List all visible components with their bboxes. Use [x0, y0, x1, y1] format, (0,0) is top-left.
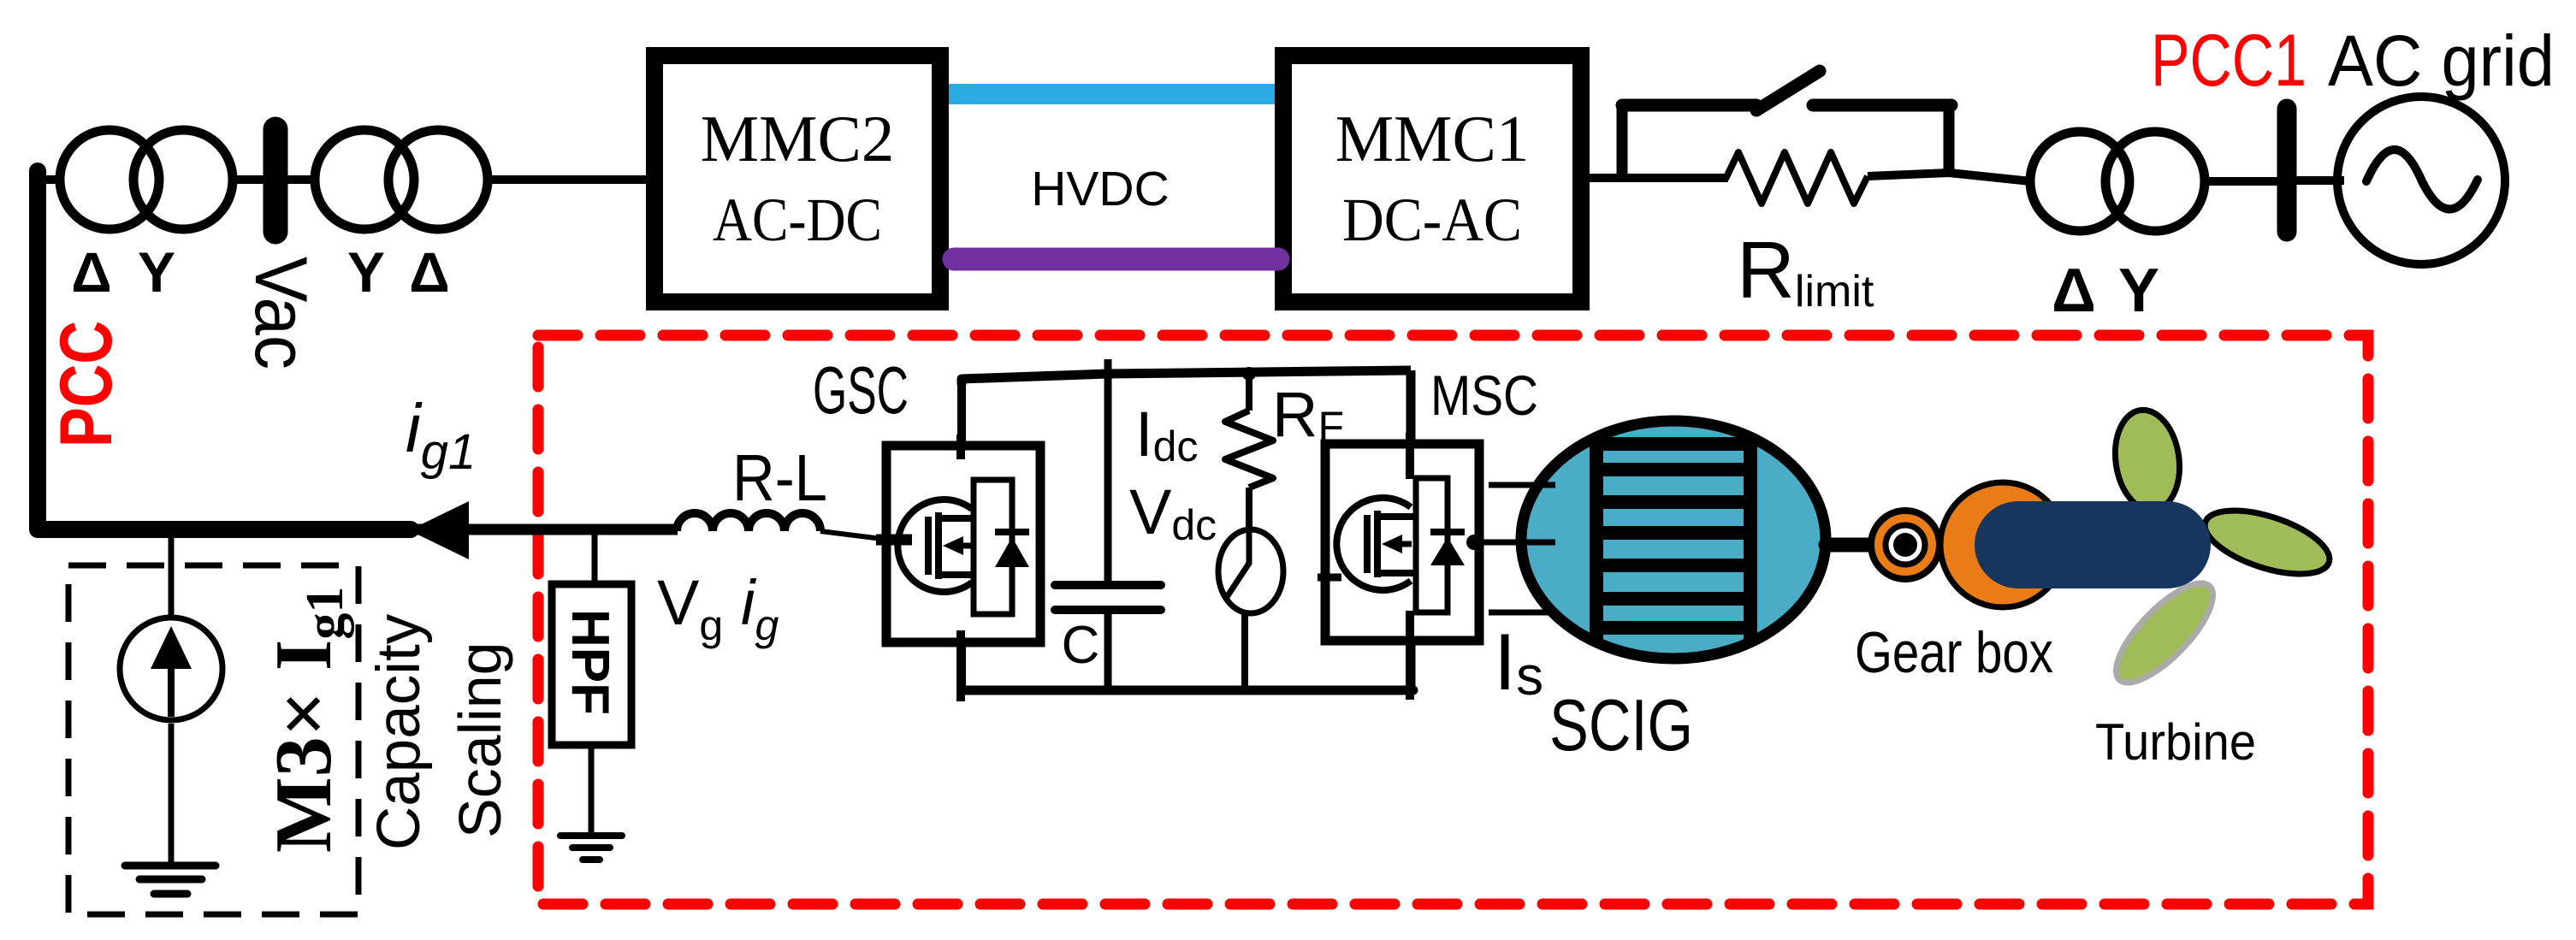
label AC grid	[2328, 21, 2555, 101]
svg-text:Gear box: Gear box	[1855, 620, 2053, 685]
converter module MSC	[1318, 433, 1479, 700]
svg-text:Turbine: Turbine	[2095, 713, 2256, 771]
svg-text:MSC: MSC	[1430, 364, 1538, 427]
svg-text:SCIG: SCIG	[1549, 685, 1693, 766]
node RF tap	[1242, 367, 1256, 381]
resistor RF	[1225, 374, 1273, 532]
wire T1 to MMC2	[488, 175, 650, 184]
label PCC (rotated red)	[45, 321, 127, 447]
gearbox large wheel	[1940, 482, 2065, 607]
label Idc	[1135, 399, 1198, 470]
svg-text:Vdc: Vdc	[1129, 476, 1217, 549]
switch S1 (bypass breaker)	[1622, 71, 1951, 174]
svg-text:Idc: Idc	[1135, 399, 1198, 470]
controlled source (DC chopper)	[1218, 529, 1283, 613]
label Scaling (rotated)	[447, 641, 513, 838]
svg-text:AC grid: AC grid	[2328, 21, 2555, 101]
label Delta of T1	[409, 240, 449, 304]
ground under HPF	[560, 836, 622, 860]
turbine blade bottom	[2102, 570, 2227, 696]
label Rlimit	[1737, 225, 1874, 316]
DC-link left rail	[957, 379, 966, 690]
label Y of T3	[2118, 257, 2159, 325]
label C	[1062, 616, 1100, 675]
label HVDC	[1031, 162, 1170, 216]
label GSC	[813, 352, 909, 428]
svg-text:AC-DC: AC-DC	[713, 186, 882, 254]
wire source to bottom rail	[1241, 612, 1248, 690]
svg-text:Δ: Δ	[409, 240, 449, 304]
dashed box capacity scaling block	[68, 565, 358, 914]
wire T3 to PCC1 busbar	[2205, 177, 2293, 186]
label Turbine	[2095, 713, 2256, 771]
converter module GSC	[876, 435, 1040, 701]
turbine blade right	[2197, 498, 2336, 587]
busbar node PCC1	[2277, 109, 2297, 232]
wire HPF tap	[592, 529, 598, 584]
probe Vac busbar	[264, 129, 288, 232]
label Y of T2	[138, 240, 175, 304]
wire T2 to Vac probe	[233, 175, 265, 184]
svg-text:Is: Is	[1494, 617, 1543, 706]
svg-text:Vac: Vac	[240, 257, 322, 369]
wire busbar to AC source	[2296, 176, 2344, 185]
label Capacity (rotated)	[365, 613, 433, 850]
red dashed boundary box	[538, 335, 2368, 904]
svg-text:M3× Ig1: M3× Ig1	[259, 587, 354, 853]
wire Vac probe to transformer T1	[287, 175, 317, 184]
label Delta of T3	[2052, 257, 2096, 325]
transformer T1 (Y-Delta)	[315, 130, 488, 229]
wire capacitor branch lower	[1104, 610, 1112, 690]
stator wire c	[1489, 610, 1555, 616]
svg-text:GSC: GSC	[813, 352, 909, 428]
label PCC1	[2151, 20, 2307, 102]
svg-text:Y: Y	[138, 240, 175, 304]
svg-text:R-L: R-L	[732, 441, 827, 515]
wire MMC1 to resistor Rlimit	[1590, 174, 1728, 182]
svg-text:MMC1: MMC1	[1335, 102, 1530, 175]
box MMC2 AC-DC converter	[654, 56, 940, 302]
label Vac (rotated)	[240, 257, 322, 369]
svg-text:HVDC: HVDC	[1031, 162, 1170, 216]
label Vg	[657, 567, 723, 649]
svg-text:ig: ig	[741, 567, 779, 649]
wire HPF to ground	[589, 745, 595, 836]
label RF	[1272, 379, 1344, 451]
DC-link bottom rail	[962, 686, 1413, 695]
svg-text:MMC2: MMC2	[701, 102, 895, 175]
label ig1	[406, 390, 476, 480]
wire resistor to transformer T3	[1868, 173, 2031, 181]
wire PCC left vertical drop	[38, 171, 411, 529]
svg-text:HPF: HPF	[560, 609, 619, 715]
svg-text:Δ: Δ	[2052, 257, 2096, 325]
svg-text:Capacity: Capacity	[365, 613, 433, 850]
svg-text:C: C	[1062, 616, 1100, 675]
transformer T3 (Delta-Y)	[2030, 132, 2205, 231]
wire tap to current source	[169, 537, 175, 616]
current arrow ig1	[409, 501, 469, 559]
wire inductor to GSC	[820, 531, 882, 539]
resistor Rlimit zigzag	[1726, 152, 1868, 204]
label Vdc	[1129, 476, 1217, 549]
wire current source to ground	[169, 724, 175, 866]
label SCIG	[1549, 685, 1693, 766]
svg-text:Vg: Vg	[657, 567, 723, 649]
block HPF	[552, 584, 631, 745]
AC grid source	[2337, 97, 2505, 264]
DC-link right rail	[1406, 370, 1416, 690]
transformer T2 (Delta-Y)	[60, 130, 233, 229]
svg-text:Y: Y	[347, 240, 385, 304]
current source M3xIg1	[120, 618, 222, 720]
shaft SCIG to gearbox	[1826, 538, 1908, 553]
capacitor C	[1055, 585, 1161, 610]
wire capacitor branch upper	[1104, 374, 1112, 585]
wire lead to transformer T2	[41, 175, 62, 184]
label Gear box	[1855, 620, 2053, 685]
svg-text:Scaling: Scaling	[447, 641, 513, 838]
machine SCIG	[1521, 421, 1826, 659]
label MSC	[1430, 364, 1538, 427]
svg-text:DC-AC: DC-AC	[1342, 186, 1522, 254]
gearbox small wheel	[1871, 511, 1939, 579]
label Delta of T2	[71, 240, 111, 304]
HVDC negative pole (purple)	[954, 248, 1278, 271]
DC-link top rail	[962, 370, 1411, 385]
stator wire b with junction	[1466, 535, 1555, 550]
svg-text:PCC1: PCC1	[2151, 20, 2307, 102]
svg-text:PCC: PCC	[45, 321, 127, 447]
label ig	[741, 567, 779, 649]
label M3 x Ig1 (rotated)	[259, 587, 354, 853]
svg-text:ig1: ig1	[406, 390, 476, 480]
svg-text:Y: Y	[2118, 257, 2159, 325]
label R-L	[732, 441, 827, 515]
wire main AC feeder (arrow segment to inductor)	[402, 524, 678, 535]
HVDC positive pole (blue)	[949, 84, 1276, 104]
turbine blade top	[2109, 405, 2186, 514]
svg-text:Δ: Δ	[71, 240, 111, 304]
inductor R-L	[677, 513, 820, 531]
box MMC1 DC-AC converter	[1283, 56, 1581, 302]
svg-text:Rlimit: Rlimit	[1737, 225, 1874, 316]
label Y of T1	[347, 240, 385, 304]
ground under current source	[125, 866, 216, 894]
node capacitor tap	[1104, 359, 1112, 374]
turbine hub nacelle	[1975, 501, 2211, 588]
label Is	[1494, 617, 1543, 706]
stator wire a	[1489, 482, 1555, 488]
